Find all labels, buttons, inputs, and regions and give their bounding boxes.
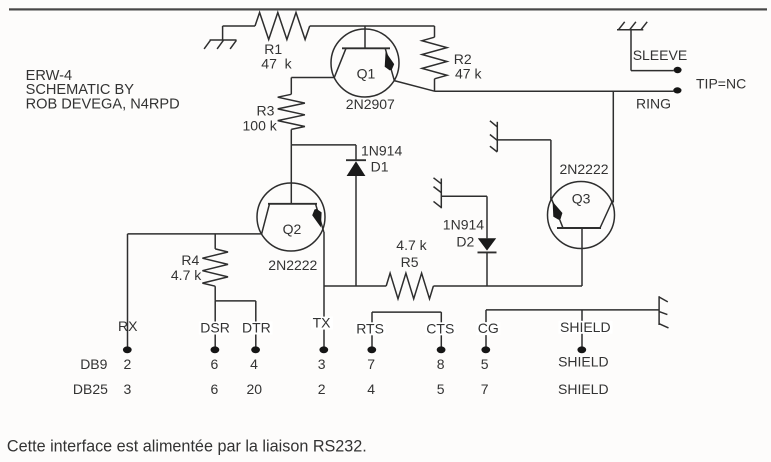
DB9 pin row — [80, 354, 608, 373]
svg-text:6: 6 — [211, 356, 219, 372]
wire: Q1 collector to R3 node — [291, 77, 334, 79]
node SHIELD — [559, 310, 613, 353]
svg-text:CG: CG — [478, 320, 499, 336]
diode D1 — [346, 143, 402, 286]
wire: bottom rail right of R5 — [433, 285, 582, 287]
ground G5 (bottom-right chassis) — [659, 296, 668, 328]
svg-text:SHIELD: SHIELD — [558, 381, 609, 397]
resistor R2 — [422, 26, 482, 91]
svg-text:2N2907: 2N2907 — [346, 96, 395, 112]
svg-text:4.7 k: 4.7 k — [171, 267, 202, 283]
svg-text:4: 4 — [250, 356, 258, 372]
svg-text:DSR: DSR — [200, 320, 230, 336]
svg-text:5: 5 — [437, 381, 445, 397]
svg-text:1N914: 1N914 — [361, 143, 402, 159]
wire: Q1 emitter to R2 bottom / RING rail — [394, 81, 434, 92]
svg-text:6: 6 — [211, 381, 219, 397]
node DTR — [241, 301, 273, 353]
svg-text:SLEEVE: SLEEVE — [633, 47, 687, 63]
svg-text:DB9: DB9 — [80, 356, 107, 372]
node RING — [636, 87, 682, 111]
svg-text:Cette interface est alimentée: Cette interface est alimentée par la lia… — [7, 438, 367, 456]
svg-text:RTS: RTS — [356, 320, 384, 336]
svg-text:RING: RING — [636, 95, 671, 111]
svg-text:20: 20 — [247, 381, 263, 397]
svg-text:Q3: Q3 — [572, 190, 591, 206]
wire: DSR/DTR bracket — [215, 300, 256, 302]
svg-text:7: 7 — [481, 381, 489, 397]
resistor R5 — [386, 237, 433, 299]
resistor R3 — [243, 78, 305, 145]
node SLEEVE — [633, 47, 687, 73]
svg-text:5: 5 — [481, 356, 489, 372]
svg-text:TX: TX — [313, 315, 332, 331]
resistor R4 — [171, 234, 228, 301]
svg-text:Q2: Q2 — [283, 221, 302, 237]
ground G1 (top-left) — [204, 26, 236, 49]
svg-text:47 k: 47 k — [261, 55, 292, 71]
svg-text:2N2222: 2N2222 — [268, 257, 317, 273]
node CG — [476, 310, 500, 353]
svg-text:SHIELD: SHIELD — [560, 319, 611, 335]
svg-text:R3: R3 — [257, 102, 275, 118]
svg-text:4.7 k: 4.7 k — [396, 237, 427, 253]
svg-text:TIP=NC: TIP=NC — [696, 76, 746, 92]
ground G3 (for Q3 emitter) — [490, 121, 497, 152]
wire: G3 to Q3 emitter — [497, 140, 551, 200]
ground G4 (for D2) — [434, 178, 442, 209]
wire: RTS-CTS bracket — [372, 311, 441, 313]
svg-text:47 k: 47 k — [455, 65, 482, 81]
ground G2 (top-right, sleeve) — [617, 22, 647, 71]
wire: Q3 collector up to RING rail — [612, 91, 614, 202]
wire: top rail left of R1 — [223, 25, 255, 27]
svg-text:R4: R4 — [181, 252, 199, 268]
svg-text:2: 2 — [318, 381, 326, 397]
svg-text:Q1: Q1 — [357, 65, 376, 81]
svg-text:DTR: DTR — [242, 320, 271, 336]
transistor Q1 — [331, 26, 399, 112]
svg-text:D2: D2 — [456, 234, 474, 250]
wire: bottom rail left of R5 — [324, 285, 386, 287]
svg-text:3: 3 — [124, 381, 132, 397]
node RTS — [355, 312, 386, 353]
wire: G4 to D2 — [441, 195, 487, 197]
wire: Q2 emitter down to TX and bottom rail — [323, 232, 325, 286]
svg-text:RX: RX — [118, 318, 138, 334]
svg-text:7: 7 — [367, 356, 375, 372]
svg-text:CTS: CTS — [426, 320, 454, 336]
svg-text:100 k: 100 k — [243, 118, 278, 134]
wire: top rail right of R1 — [310, 25, 435, 27]
svg-text:R5: R5 — [401, 254, 419, 270]
diode D2 — [443, 196, 497, 286]
svg-text:1N914: 1N914 — [443, 217, 484, 233]
svg-text:3: 3 — [318, 356, 326, 372]
resistor R1 — [255, 13, 310, 72]
wire: CG to chassis ground rail — [486, 309, 659, 311]
node CTS — [425, 312, 456, 353]
svg-text:SHIELD: SHIELD — [558, 354, 609, 370]
wire: node at R3 bottom to D1 — [291, 144, 356, 146]
node RX — [118, 234, 138, 353]
top rule — [9, 8, 767, 10]
transistor Q2 — [257, 145, 325, 273]
svg-text:2: 2 — [124, 356, 132, 372]
svg-text:D1: D1 — [371, 158, 389, 174]
node TX — [311, 286, 333, 353]
svg-text:R1: R1 — [264, 41, 282, 57]
svg-text:DB25: DB25 — [73, 381, 108, 397]
transistor Q3 — [548, 161, 615, 286]
node DSR — [199, 301, 230, 353]
title — [26, 68, 180, 112]
wire: Q2 collector rail (RX/R4) — [128, 233, 262, 235]
DB25 pin row — [73, 381, 609, 397]
svg-text:8: 8 — [437, 356, 445, 372]
wire: RING rail — [435, 90, 674, 92]
svg-text:ROB DEVEGA, N4RPD: ROB DEVEGA, N4RPD — [26, 97, 180, 113]
svg-text:2N2222: 2N2222 — [560, 161, 609, 177]
svg-text:4: 4 — [367, 381, 375, 397]
wire: sleeve wire — [631, 70, 674, 72]
